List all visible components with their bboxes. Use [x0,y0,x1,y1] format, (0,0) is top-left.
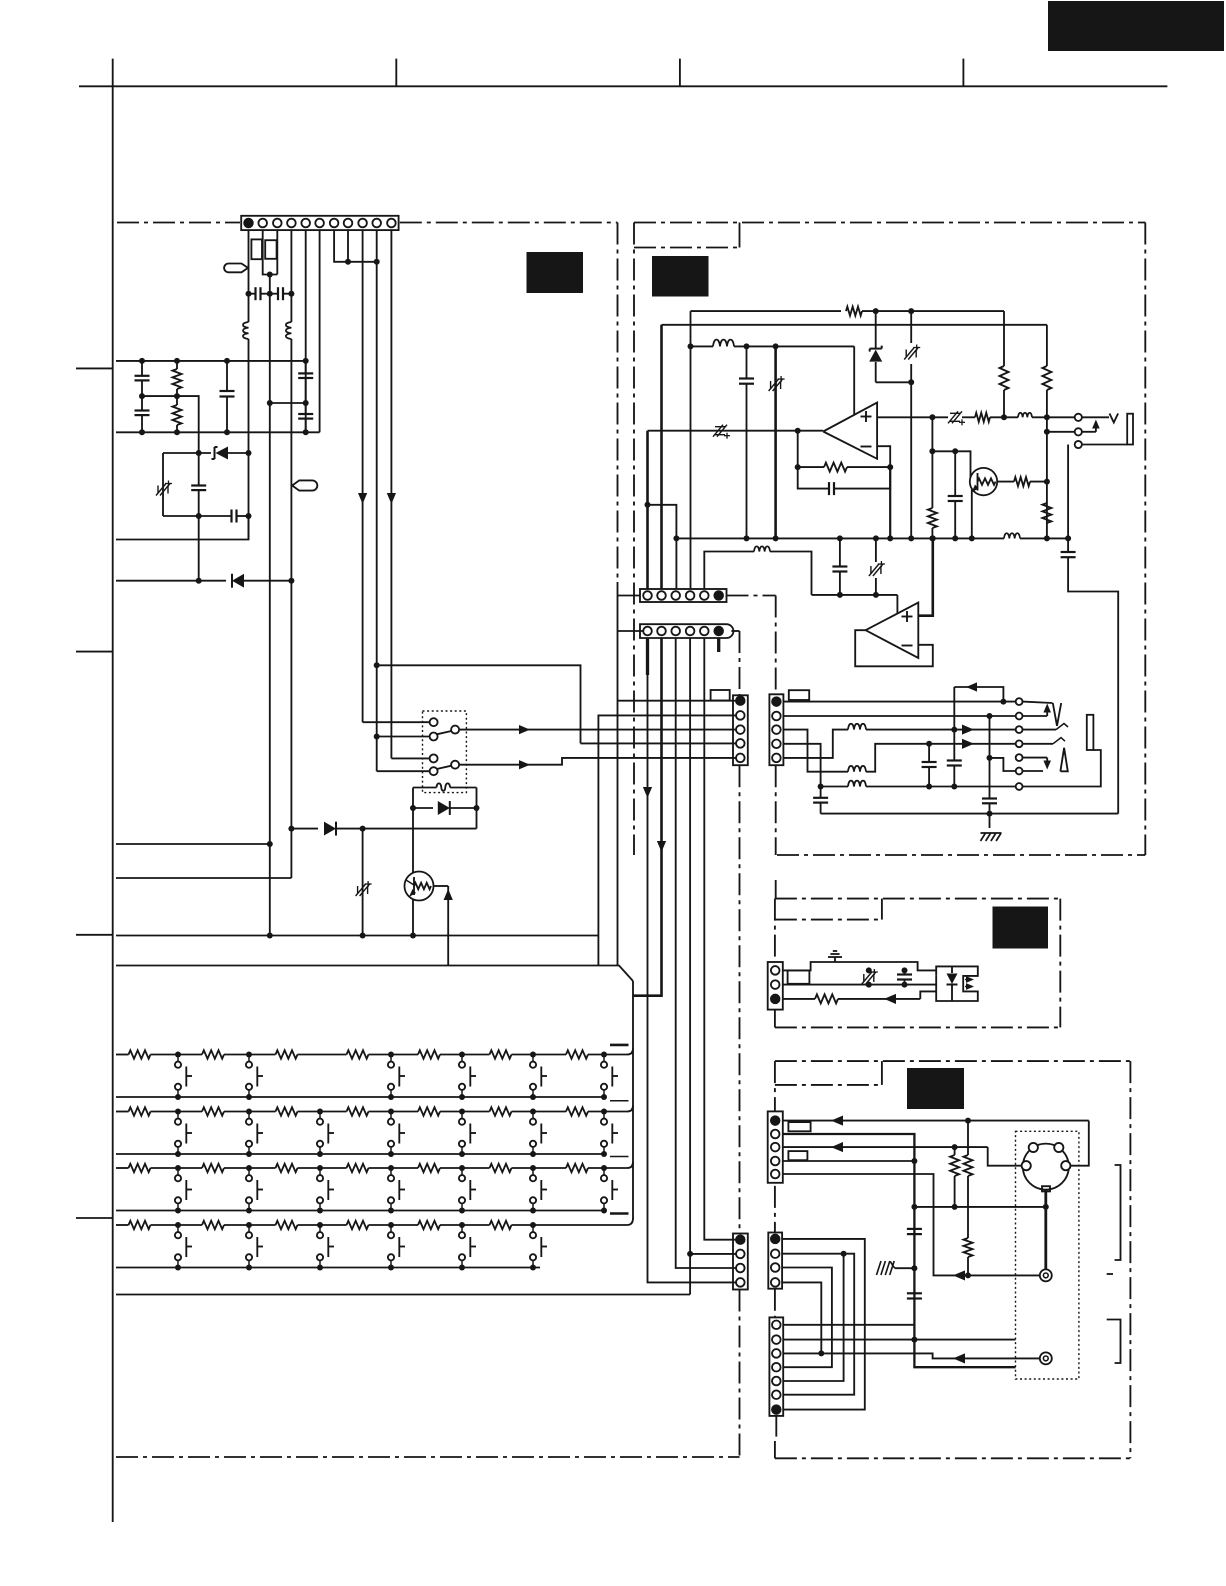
junction bus1 x227 [224,358,230,364]
power bus 2 y=432 [116,431,320,433]
chain CN601 to phones-connector column [727,595,776,597]
U202 feedback loop box [855,630,933,666]
capacitor C101 (x=142 upper) [141,361,143,376]
CN402 pin1 line [783,1324,914,1326]
phones line L2 y=716 from pin2 [783,715,1016,717]
key switch row4 col x=249 [246,1222,252,1228]
jack board notch chain horizontal [775,1084,882,1086]
CN301 pin1 [771,966,780,975]
hidden-area black box P804 [907,1068,964,1109]
U202 + input feed from bus (bold) [918,538,933,615]
bottom gather line y=1294.5 [116,1294,690,1296]
resistor R401 x=954.6 [954,1147,956,1155]
main board outline right chain x=617 [617,223,619,583]
electrolytic C202 x=911.2 [910,311,912,343]
audio supply line1 y=311 [691,310,842,312]
bundle branch y=995.7 [633,995,662,997]
capacitor C204 x=955.2 [954,451,956,496]
junction +line x932 [929,414,935,420]
audio board outline: right edge [1144,223,1146,856]
LED return line y=984.6 [783,984,936,986]
junction y936 x413 [410,933,416,939]
sleeve to circle7 wire [1023,750,1101,787]
pin1 line corner down to DIN [1070,1121,1089,1166]
zener loop top wire y=453 [163,452,211,454]
phones jack contact circles [1016,698,1023,705]
junction pin4 wire / CN104 pin2 branch [687,1251,693,1257]
connector CN402 body (7-pin) [769,1317,783,1416]
key switch row3 col x=320 [317,1165,323,1171]
jack tip contact V [1082,416,1109,418]
relay switch S101 dotted outline [423,711,467,793]
connector CN401 body [768,1111,783,1182]
connector CN104 pin2 [736,1250,745,1259]
CN402 pin7 (filled) [772,1405,781,1414]
connector CN101 pin 9 [358,219,367,228]
coil L102 on pin4 wire [286,322,292,339]
resistor R102 (x=177 lower) [176,396,178,405]
feedback leg to bus x=890.2 [889,467,891,538]
main board chain jog into CN601 [618,595,641,597]
link to DIN stem y=1206.9 [914,1206,1045,1208]
ruler tick x=396 [395,59,397,87]
audio board notch: chain horizontal [634,247,740,249]
reference bracket 1 [1115,1165,1121,1260]
label rect CN401-b [788,1151,807,1160]
cap C209 on V2 [982,797,997,799]
key switch row3 col x=391 [388,1165,394,1171]
CN401 pin1 (filled) [771,1116,780,1125]
Q201 base resistor R206 [997,481,1014,483]
CN402u pin2 [771,1249,780,1258]
junction x968 y1275 [965,1272,971,1278]
chain CN602 to CN103 column [731,630,739,632]
key matrix row 3 bottom line [116,1210,605,1212]
junction V2/rail [987,811,993,817]
junction y382 x911 [908,379,914,385]
key switch row2 col x=604 [601,1109,607,1115]
feedback tap wire x=854.2 onto op-amp [853,346,855,414]
junction trunk y=1161 [911,1158,917,1164]
branch to CN104 pin2 [690,1253,735,1255]
audio board outline (chain): top edge [634,222,1145,224]
connector CN402u body (4-pin) [768,1233,782,1289]
junction pin5/y403 [303,400,309,406]
cap C208 on V1 [947,759,962,761]
CN401 pin5 line to upper RCA [783,1174,1041,1275]
junction line3 x690 [688,343,694,349]
junction base x1047 [1044,479,1050,485]
jack tip V contact [1023,702,1053,703]
connector CN601 pin 3 [671,591,680,600]
resistor R403 x=968 lower [964,1238,973,1257]
wire x=270 long vertical [269,275,271,936]
CN402 tail stub [775,1416,777,1437]
main board chain x=740 segments [739,631,741,695]
junction bus2 x306 [303,429,309,435]
CN402 pin6 [772,1390,781,1399]
connector CN602 pin 4 [686,627,695,636]
wire x=1068 down from jack sleeve [1067,445,1069,553]
connector CN602 body (rounded end) [640,624,733,638]
connector CN101 pin 6 [315,219,324,228]
junction output x797.7 [795,428,801,434]
connector CN101 pin 4 [287,219,296,228]
connector CN103 pin1 (filled) [736,696,745,705]
polarized marker x=868.8 [868,970,870,973]
CN401 pin3 line to DIN left pin [783,1146,830,1148]
key matrix row 2 bottom line [116,1153,605,1155]
branch y=505 to bus [648,505,677,589]
DIN pin c [1022,1161,1031,1170]
main board outline (chain line, top left) [117,222,240,224]
electrolytic C207 x=876 [875,538,877,562]
feed wire into CN602 pin1 from x=617 [618,630,644,632]
key switch row2 col x=249 [246,1109,252,1115]
cap C210 below rail [820,787,822,798]
cap C211 x=929.1 [928,744,930,762]
row exit mark 1 (bold) [610,1044,629,1047]
ruler tick x=963 [962,59,964,87]
relay box right wire x=476.5 [476,788,478,829]
key switch row4 col x=533 [530,1222,536,1228]
key switch row2 col x=391 [388,1109,394,1115]
CN402u pin1 (filled) [771,1235,780,1244]
chassis ground stub [895,1267,915,1269]
wire CN602 pin1 down to CN104 pin4 [648,675,736,1282]
phones sleeve bar [1087,715,1094,750]
wire CN602 pin4 down to y1295 line [689,638,691,1295]
wire pin8 stub [347,230,349,262]
wire y=829 diode D103 (points right) [291,828,318,830]
power bus 1 y=361 [116,360,306,362]
polarized marker on loop left [157,486,159,494]
connector CN301 body [768,962,783,1010]
junction pin5/bus1 [303,358,309,364]
CN401 pin2 [771,1130,780,1139]
audio line3 y=346 with coil L201 [691,345,714,347]
junction pin4/y829 [288,826,294,832]
ruler tick x=680 [679,59,681,87]
junction y936 x362 [360,933,366,939]
capacitor C205 x=1068 [1061,551,1076,553]
supply wire y=539 from border [116,516,249,540]
series cap row y=294 with two caps [249,293,256,295]
phones rail y=786.5: jog from pin4 with coil L205 [783,744,848,787]
audio board outline: left edge [633,223,635,856]
key matrix row 4 top line with resistors [116,1224,129,1226]
line y=594.9 [812,594,898,596]
key switch row3 col x=249 [246,1165,252,1171]
key switch row3 col x=533 [530,1165,536,1171]
junction E2 x=843.6 [841,1251,847,1257]
jack switch arrow up [1082,431,1096,433]
U201 output wire y=430.7 [648,430,824,432]
LED drive line y=998.9 with resistor R301 and arrow [783,998,815,1000]
A-feed wire y=743.4 from switch-area [377,665,581,743]
jack sleeve wire [1082,444,1127,446]
key switch row4 col x=178 [175,1222,181,1228]
CN103R pin3 [772,725,781,734]
key switch row4 col x=462 [459,1222,465,1228]
wire V1 x=954.3 down [953,687,955,761]
lower RCA jack [1040,1352,1052,1364]
ruler tick y=935 [76,934,113,936]
op-amp U202 (points left) [866,603,919,659]
connector CN101 pin 1 (filled) [244,219,253,228]
label rect above CN103R [789,690,809,700]
key switch row4 col x=391 [388,1222,394,1228]
Q201 emitter to bus [971,490,973,539]
CN103R pin1 (filled) [772,697,781,706]
E3-D4 link [782,1268,832,1368]
key matrix row 2 arc into bundle [627,1106,633,1112]
connector CN103 pin2 [736,711,745,720]
CN402 pin4 [772,1363,781,1372]
connector CN104 pin3 [736,1264,745,1273]
remote board outline (chain rectangle) [775,898,1060,900]
capacitor C102 (x=142 lower) [141,396,143,410]
connector CN101 pin 5 [301,219,310,228]
junction +line x1004 [1001,414,1007,420]
junction loop-bottom x199 [196,513,202,519]
connector CN101 pin 10 [372,219,381,228]
junction L1 x=1003 [1000,699,1006,705]
junction pin8 on jog [345,259,351,265]
key switch row2 col x=462 [459,1109,465,1115]
key matrix row 1 top line with resistors [116,1054,129,1056]
jack down-arrow contact [1023,757,1048,759]
zener D201 x=875.7 [875,311,877,348]
jumper box below pin3 [265,240,276,259]
row exit mark 4 (bold) [610,1212,629,1215]
wire CN601pin4 up x=690.5 [690,311,692,589]
junction y580 x199 [196,578,202,584]
link wire y396 to zener loop [142,396,199,453]
wire pin2 down to joint [263,230,278,274]
audio board notch: solid vertical [739,223,741,248]
relay coil L103 [413,787,437,789]
hidden-area black box P802 [652,256,709,297]
CN301 pin3 (filled) [771,995,780,1004]
mute arrow line y=687 [954,687,1003,702]
junction pin4/y580 [288,578,294,584]
label rect CN401-a [788,1122,810,1131]
CN402u pin4 [771,1278,780,1287]
wire x=362.6 lower segment with polarized marker [362,829,364,936]
feedback resistor R204 [797,431,799,467]
CN401 pin3 [771,1143,780,1152]
wire pin10 down to relay switch [376,230,378,771]
junction line3 x746 [744,343,750,349]
key switch row3 col x=462 [459,1165,465,1171]
wire CN602 pin5 down to CN104 pin1 [704,638,735,1240]
connector CN601 pin 5 [700,591,709,600]
switch output 1 to CN103 pin3 [459,729,735,731]
connector CN602 pin 3 [671,627,680,636]
resistor R203 x=1046.9 from line2 [1046,325,1048,366]
junction loop-top x199 [196,450,202,456]
LED feed line with chassis ground [783,962,936,970]
connector CN602 pin 2 [657,627,666,636]
junction rail x=820.6 [818,784,824,790]
emission arrows [966,976,974,983]
junction V1/L3 [951,727,957,733]
resistor R201 on line1 [846,307,862,316]
connector CN103 pin5 [736,754,745,763]
zener loop bottom wire y=516 with series cap C107 [163,515,231,517]
hidden-area black box P803 [993,907,1049,949]
key matrix row 3 arc into bundle [627,1162,633,1168]
junction line1 x876 [873,308,879,314]
wire pin3 down to joint [276,230,278,274]
jumper box below pin2 [251,239,262,259]
ruler tick y=652 [76,651,113,653]
junction x177 mid [174,393,180,399]
CN602 pin6 bold stub [717,638,720,652]
connector CN101 pin 8 [344,219,353,228]
CN401 pin4 [771,1157,780,1166]
cap C402 on trunk [907,1292,922,1294]
DIN pin a [1029,1143,1038,1152]
ruler tick y=1218 [76,1217,113,1219]
connector CN601 body [640,589,727,602]
DIN pin b [1054,1143,1063,1152]
ground wire V2 x=989.5 [989,716,991,799]
junction pin10 on jog [374,259,380,265]
Q201 collector line y=451.3 [932,451,970,477]
opto/LED module outline [936,966,978,1001]
connector CN602 pin 5 [700,627,709,636]
DIN stem (bold) [1044,1191,1047,1270]
wire x=199 down to y=580 [198,516,200,581]
CN402 pin3 line to lower RCA [783,1353,1040,1358]
A-feed wire y=715.4 from x=598 [598,715,735,965]
junction x=868.8 bottom [866,982,872,988]
key switch row2 col x=320 [317,1109,323,1115]
connector CN103 pin3 [736,725,745,734]
junction bus1 x142 [139,358,145,364]
resistor R207 x=1046.9 lower [1042,503,1051,523]
CN301 pin2 [771,980,780,989]
op-amp U201 (points left) [823,403,877,459]
feed from CN601 pin5 y=551.5 with coil L202 [704,552,754,590]
key switch row1 col x=462 [459,1052,465,1058]
transistor Q101 (digital) [405,872,434,901]
key matrix row 4 arc from bundle [627,1218,633,1225]
capacitor C104 (x=306 upper) [305,361,307,374]
junction x=868.8 top [866,967,872,973]
wire y=580 with diode D102 (cathode left) [116,580,226,582]
junction trunk D-pin2 [911,1337,917,1343]
junction x270 y844 [267,841,273,847]
wire pin7 jog [334,230,377,262]
feedback capacitor C203 [798,467,828,489]
upper RCA jack [1040,1269,1052,1281]
jack board outline (chain rectangle) [775,1060,1131,1062]
row exit mark 3 [610,1156,629,1158]
phones line L4 y=743.8: jog from pin3 with coil L204 [783,730,848,772]
junction +line x1047 [1044,414,1050,420]
CN402u pin3 [771,1263,780,1272]
DIN socket circle [1023,1144,1069,1190]
key switch row1 col x=391 [388,1052,394,1058]
key matrix row 4 bottom line [116,1267,540,1269]
phones sub-board divider chain x=776 [775,765,777,855]
junction pin3 x=954.6 [952,1144,958,1150]
CN401 pin2 trunk (down right side) [783,1134,1016,1367]
LED D301 inside module [951,966,953,973]
junction x270/cap row [267,291,273,297]
line-out jack circles [1075,414,1082,421]
jack board notch solid vertical [881,1061,883,1085]
junction x270 y403 [267,400,273,406]
resistor R402 x=968 [967,1121,969,1155]
junction y451 x955 [952,448,958,454]
junction L4 x=929 [926,741,932,747]
connector CN103 body (to phones board) [733,695,748,765]
junction pin10/y736 [374,734,380,740]
relay box left wire x=413 [412,788,414,873]
label rect at CN301 [788,970,810,983]
DIN pin d [1061,1161,1070,1170]
CN602 pin1 bold stub [646,638,649,675]
junction bus1 x177 [174,358,180,364]
junction x932 y451 [929,448,935,454]
row exit mark 2 [610,1100,629,1102]
CN103R pin2 [772,712,781,721]
junction bus2 x177 [174,429,180,435]
key switch row4 col x=320 [317,1222,323,1228]
connector CN103 pin4 [736,739,745,748]
E4-D3 link [782,1282,821,1353]
wire y=935 long [116,935,598,937]
junction y829 x362 [360,826,366,832]
CN402 pin3 [772,1349,781,1358]
key switch row3 col x=604 [601,1165,607,1171]
connector CN601 pin 1 [643,591,652,600]
switch arm 2 [437,766,451,769]
zener diode D101 (cathode left) [214,447,216,459]
junction pins2-3 mid [267,272,273,278]
wire CN601pin2 up x=661.5 (bold) [660,325,663,589]
switch input lines [363,721,430,723]
junction trunk y=1206.9 [911,1204,917,1210]
junction pin1/zener loop top [246,450,252,456]
chassis ground symbol [834,958,836,963]
E1-D7 link [782,1239,865,1410]
junction L2 x=989.5 [987,713,993,719]
CN401 pin5 [771,1170,780,1179]
junction line3 x776 [773,343,779,349]
jack mid contacts [1023,729,1057,731]
wire pin9 down to relay switch [362,230,364,722]
line to jack ring contact y=431.8 [1047,431,1074,433]
wire pin11 down to relay switch [390,230,392,758]
connector CN601 pin 2 [657,591,666,600]
junction bus2 x142 [139,429,145,435]
matrix feed line y=966 with chamfer into bundle [116,966,633,982]
wire CN602 pin3 down to CN104 pin3 [676,638,736,1268]
key matrix row 1 bottom line [116,1096,605,1098]
phones bottom return y=813.6 [821,813,1119,815]
cap C301 x=904.5 [904,970,906,974]
CN402 pin5 [772,1377,781,1386]
junction line1 x911 [908,308,914,314]
CN401 pin1 line to DIN right pin [783,1120,1089,1122]
DIN socket dotted outline [1016,1131,1079,1379]
junction pin1 line x=968 [965,1118,971,1124]
